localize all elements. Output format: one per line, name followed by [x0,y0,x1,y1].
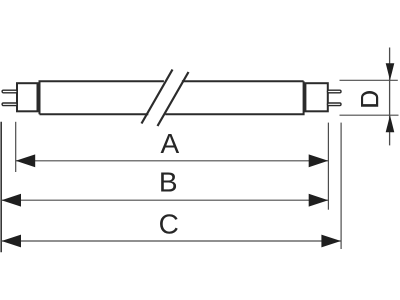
extension line left inner (cap face, for A) [15,122,17,172]
arrowhead D top (pointing down) [386,63,395,80]
label D (rotated letter D drawn as path) [361,91,378,107]
break symbol diagonal 1 [142,70,173,124]
extension line D top [340,79,398,81]
extension line right inner (cap face, for A and B) [327,123,329,210]
svg-text:A: A [160,128,179,159]
arrowhead A right [309,154,329,167]
left end cap [17,83,38,111]
dimension line C [2,240,341,242]
arrowhead B left [2,194,22,207]
arrowhead B right [309,194,329,207]
extension line left outer (pin tips, for B and C) [0,122,2,253]
right end cap [305,83,327,111]
dimension line D vertical [389,48,391,146]
arrowhead C left [2,235,22,248]
right pin top [328,90,342,93]
dimension line A [16,160,329,162]
arrowhead C right [321,235,341,248]
arrowhead A left [16,154,36,167]
extension line D bottom [340,114,399,116]
svg-text:C: C [159,208,179,239]
dimension line B [2,199,329,201]
right pin bottom [328,103,342,106]
extension line right outer (pin tips, for C) [340,123,342,249]
lamp tube body outline [40,81,304,114]
left pin bottom [2,103,17,106]
left pin top [2,90,17,93]
arrowhead D bottom (pointing up) [386,115,395,132]
svg-text:B: B [159,166,178,197]
break symbol diagonal 2 [158,72,189,126]
